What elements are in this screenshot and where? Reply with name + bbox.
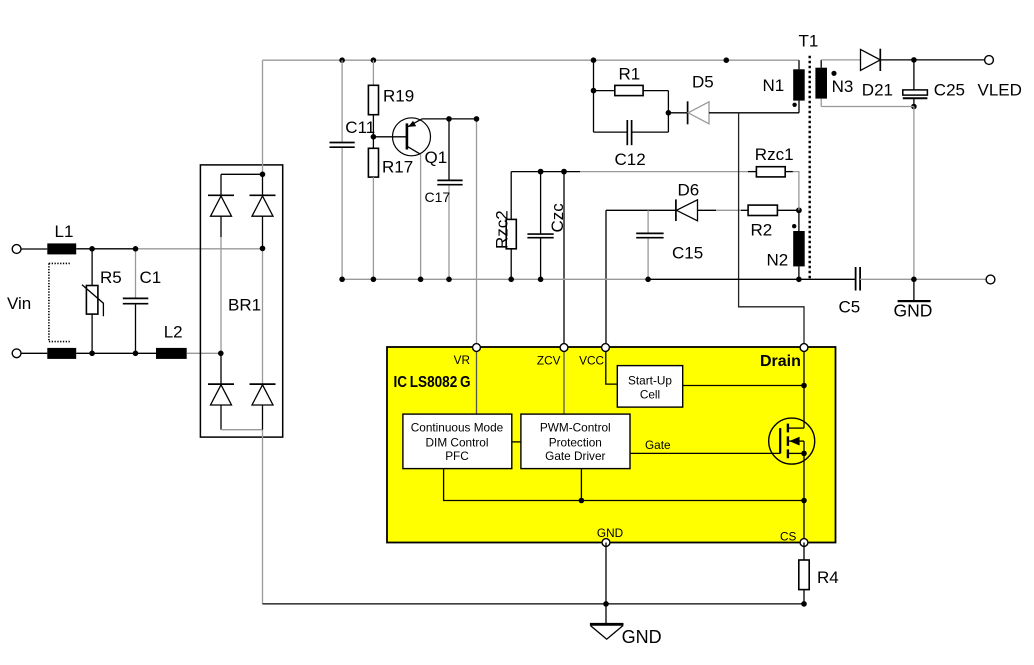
svg-text:R1: R1: [619, 65, 641, 84]
svg-text:T1: T1: [799, 32, 819, 51]
svg-text:Cell: Cell: [640, 388, 660, 402]
svg-text:D21: D21: [862, 81, 893, 100]
svg-text:L2: L2: [164, 323, 183, 342]
svg-text:DIM Control: DIM Control: [426, 435, 489, 449]
svg-text:GND: GND: [622, 627, 662, 647]
svg-text:IC LS8082 G: IC LS8082 G: [394, 374, 471, 391]
svg-text:C15: C15: [672, 244, 703, 263]
svg-text:R19: R19: [383, 87, 414, 106]
svg-text:C11: C11: [345, 118, 375, 137]
svg-text:C5: C5: [839, 298, 861, 317]
svg-text:R17: R17: [382, 158, 413, 177]
svg-text:C17: C17: [425, 189, 451, 205]
svg-text:Gate: Gate: [645, 438, 671, 452]
svg-text:C1: C1: [140, 268, 162, 287]
svg-text:Drain: Drain: [760, 353, 801, 370]
svg-text:Czc: Czc: [548, 203, 567, 233]
svg-text:Rzc2: Rzc2: [492, 210, 511, 249]
svg-text:D5: D5: [692, 73, 714, 92]
svg-text:VLED: VLED: [978, 81, 1022, 100]
svg-text:N1: N1: [763, 76, 785, 95]
svg-text:N3: N3: [832, 77, 854, 96]
svg-text:VCC: VCC: [579, 354, 604, 368]
svg-text:CS: CS: [780, 530, 797, 544]
svg-text:D6: D6: [678, 181, 700, 200]
svg-text:VR: VR: [454, 353, 470, 367]
svg-text:Gate Driver: Gate Driver: [545, 449, 605, 463]
svg-text:GND: GND: [597, 526, 623, 540]
svg-text:R2: R2: [751, 221, 773, 240]
svg-text:C12: C12: [615, 150, 646, 169]
svg-text:L1: L1: [55, 222, 74, 241]
svg-text:N2: N2: [767, 251, 789, 270]
svg-text:BR1: BR1: [228, 296, 261, 315]
svg-text:Protection: Protection: [549, 435, 602, 449]
svg-text:PWM-Control: PWM-Control: [540, 420, 611, 434]
svg-text:Q1: Q1: [425, 148, 448, 167]
svg-text:R5: R5: [100, 268, 122, 287]
svg-text:ZCV: ZCV: [537, 354, 561, 368]
svg-text:Continuous Mode: Continuous Mode: [411, 420, 504, 434]
svg-text:GND: GND: [894, 301, 933, 321]
svg-text:C25: C25: [934, 81, 965, 100]
svg-text:Rzc1: Rzc1: [755, 145, 794, 164]
svg-text:Start-Up: Start-Up: [628, 373, 672, 387]
svg-text:R4: R4: [817, 568, 839, 587]
svg-text:PFC: PFC: [445, 449, 469, 463]
svg-text:Vin: Vin: [7, 294, 31, 313]
